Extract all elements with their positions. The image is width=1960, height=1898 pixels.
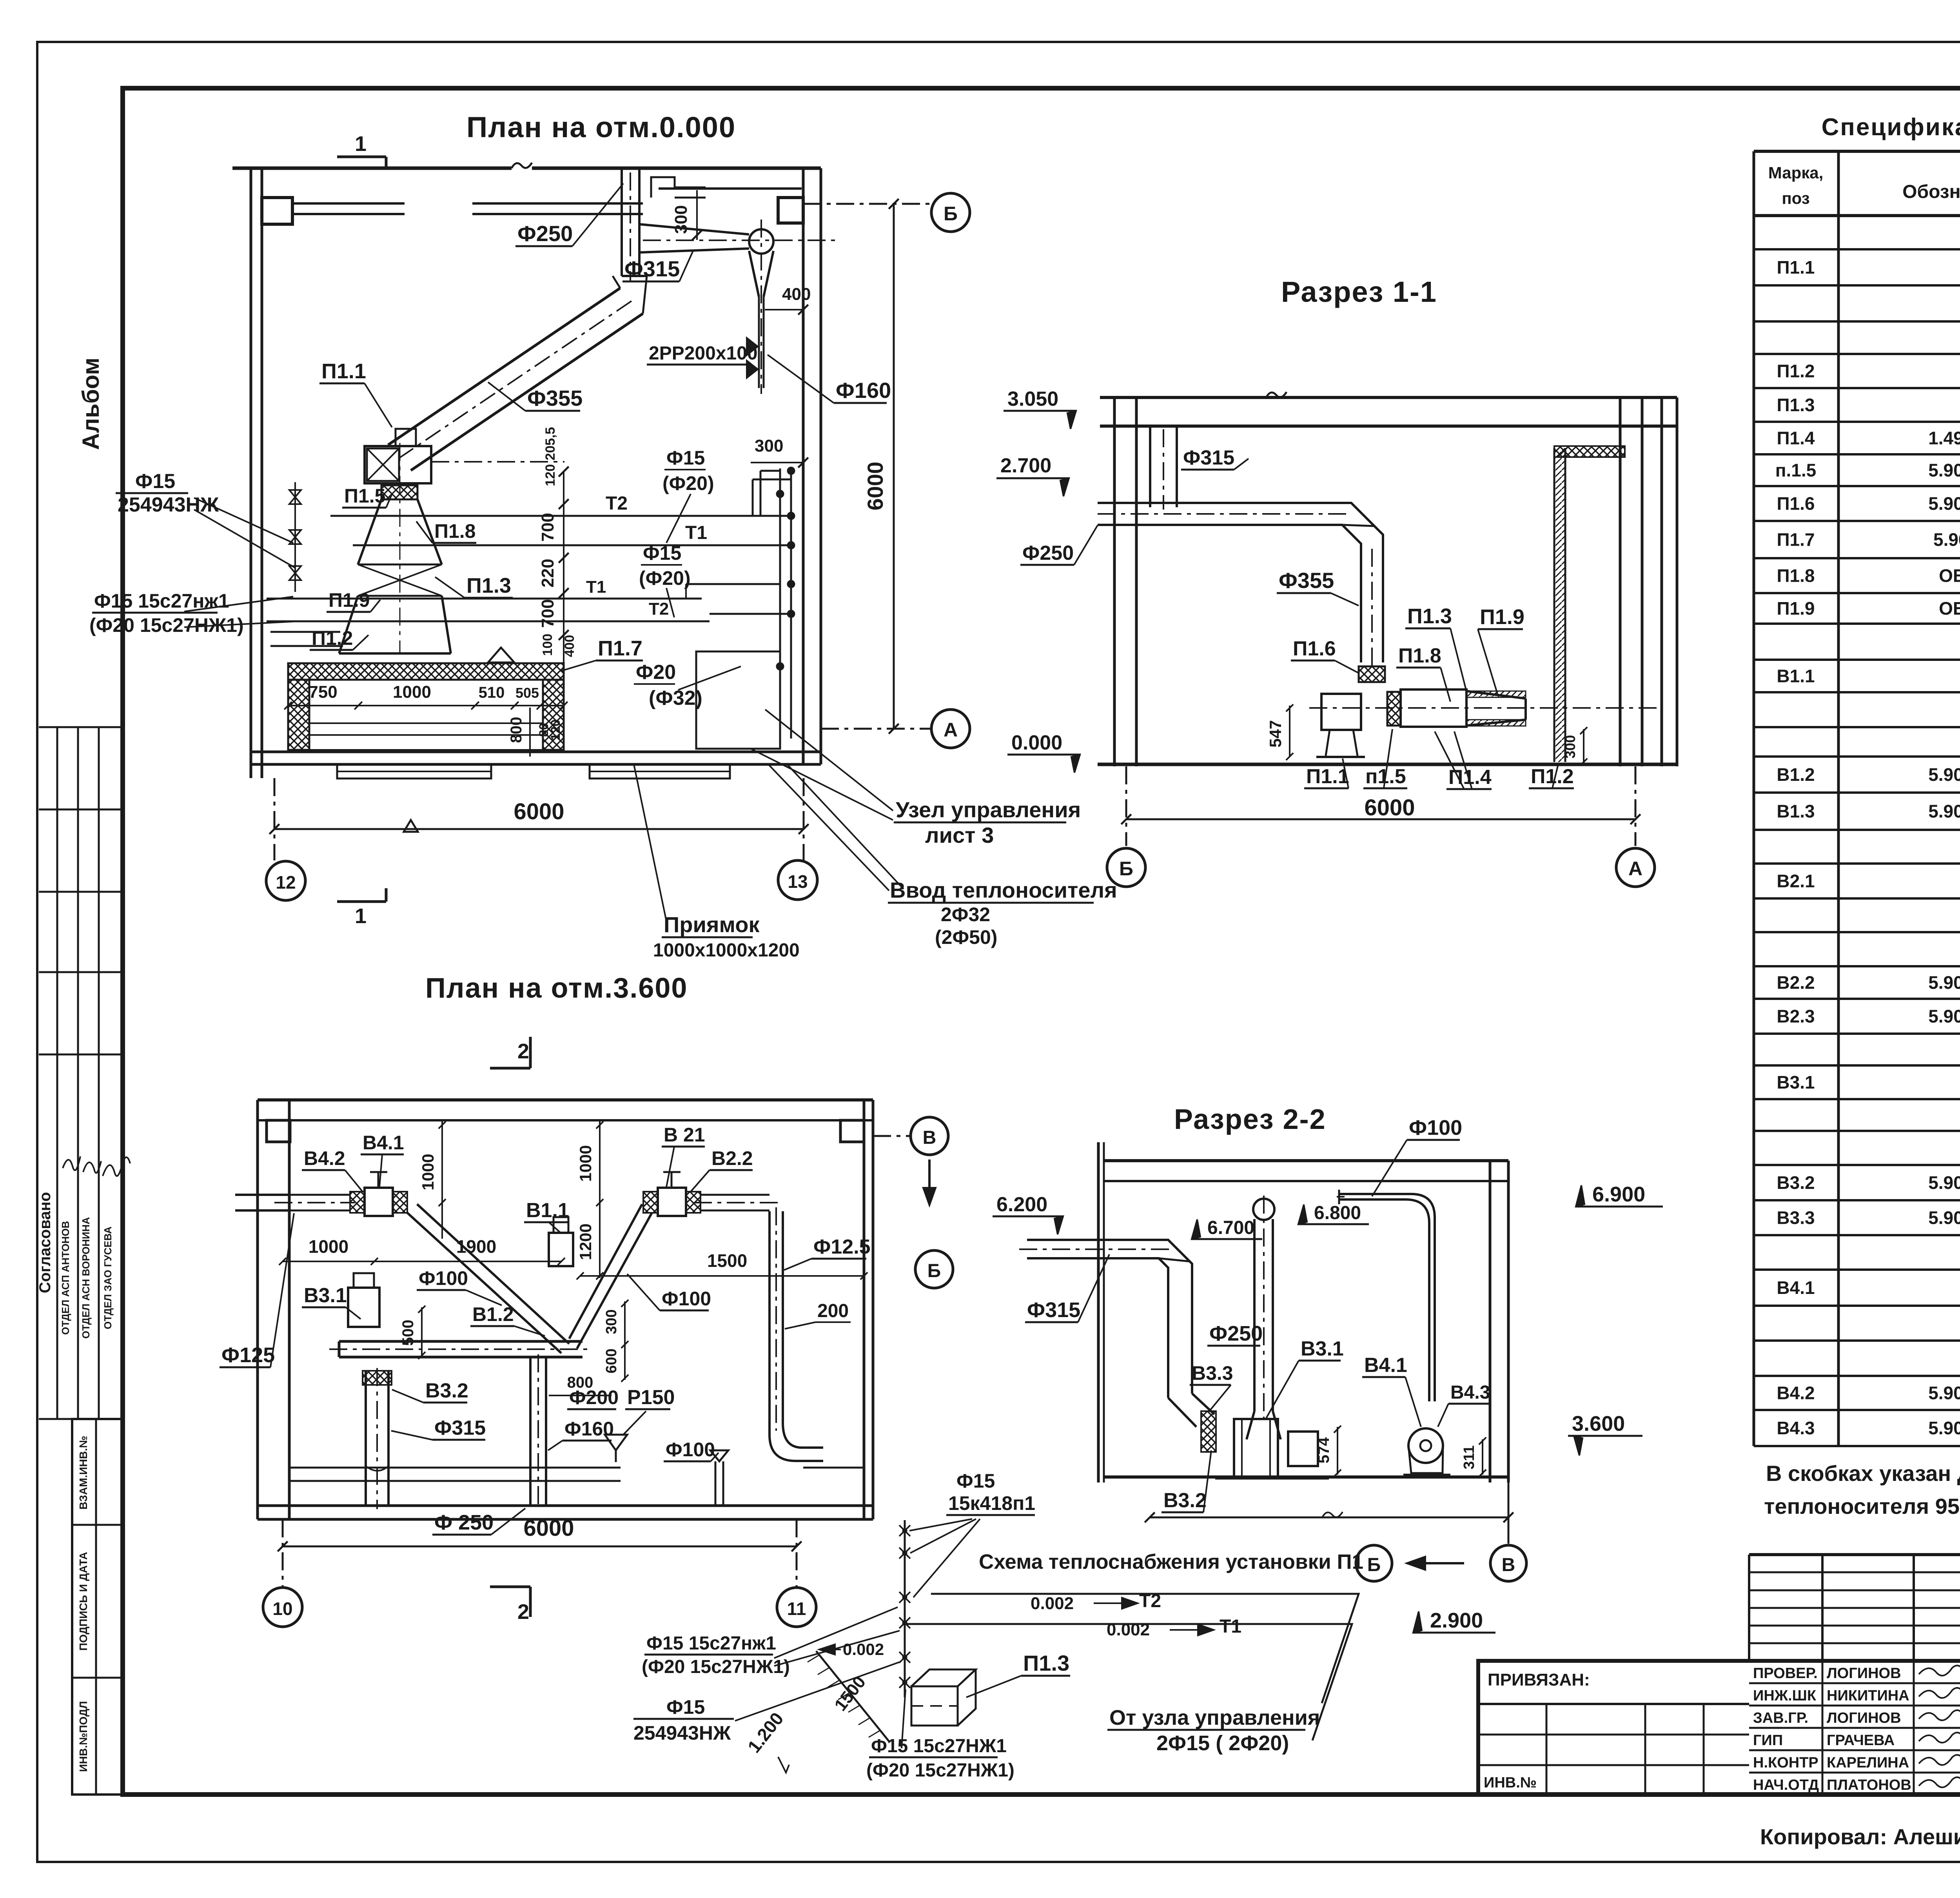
plan0 right column	[778, 198, 803, 223]
svg-text:ИНЖ.ШК: ИНЖ.ШК	[1753, 1688, 1817, 1704]
dim 1900 plan36	[374, 1261, 561, 1262]
line to axis В	[1508, 1482, 1510, 1544]
svg-text:П1.2: П1.2	[1777, 361, 1815, 381]
svg-text:П1.3: П1.3	[1777, 395, 1815, 415]
svg-text:ЛОГИНОВ: ЛОГИНОВ	[1827, 1710, 1901, 1726]
pipe Ф100 top run sec2	[1339, 1194, 1435, 1401]
svg-text:В 21: В 21	[664, 1124, 705, 1146]
svg-text:Ф15: Ф15	[643, 542, 681, 564]
svg-text:П1.9: П1.9	[1777, 598, 1815, 619]
svg-text:В2.1: В2.1	[1777, 871, 1815, 891]
svg-text:574: 574	[1315, 1437, 1332, 1463]
svg-text:Ф15: Ф15	[666, 1696, 705, 1718]
svg-text:254943НЖ: 254943НЖ	[118, 494, 219, 516]
specification table grid	[1753, 151, 1755, 1446]
svg-text:400: 400	[562, 635, 577, 657]
down arrow between В and Б	[928, 1159, 931, 1199]
svg-text:Спецификация систем отопления: Спецификация систем отопления и вентиляц…	[1822, 114, 1960, 141]
svg-text:300: 300	[671, 205, 691, 234]
svg-text:11: 11	[787, 1599, 806, 1619]
svg-text:НАЧ.ОТД: НАЧ.ОТД	[1753, 1777, 1819, 1793]
base line fans sec2	[1215, 1478, 1329, 1480]
svg-text:Ф100: Ф100	[666, 1439, 715, 1461]
svg-text:5.904-38: 5.904-38	[1928, 1383, 1960, 1403]
axis circle 11	[777, 1588, 816, 1627]
svg-text:Ф250: Ф250	[1209, 1322, 1263, 1345]
svg-text:В2.2: В2.2	[1777, 973, 1815, 993]
axis circle В sec2	[1490, 1545, 1526, 1581]
benchmark triangle	[404, 820, 418, 832]
svg-text:2.700: 2.700	[1000, 454, 1051, 477]
svg-text:П1.2: П1.2	[312, 627, 353, 649]
sec1 left wall	[1113, 397, 1116, 766]
heating pipe Т1 upper	[353, 544, 791, 546]
axis circle 12	[266, 861, 305, 900]
dim 1500 plan36	[580, 1275, 864, 1277]
svg-text:П1.7: П1.7	[598, 637, 642, 660]
svg-text:200: 200	[817, 1301, 849, 1321]
svg-text:А: А	[1628, 858, 1642, 880]
svg-text:В4.1: В4.1	[363, 1132, 404, 1154]
svg-text:В3.2: В3.2	[1777, 1172, 1815, 1193]
dim 6000 sec1	[1126, 818, 1635, 820]
svg-text:В: В	[1502, 1555, 1515, 1575]
svg-text:поз: поз	[1782, 189, 1809, 207]
svg-text:5.904-4: 5.904-4	[1933, 530, 1960, 550]
svg-text:Ввод теплоносителя: Ввод теплоносителя	[890, 878, 1117, 902]
flex insert П1.5 hatched	[381, 485, 417, 499]
svg-text:Ф250: Ф250	[1022, 542, 1074, 564]
pit inner outline	[309, 680, 543, 750]
svg-text:(Ф20 15с27НЖ1): (Ф20 15с27НЖ1)	[642, 1657, 790, 1677]
dim 1000 plan36	[283, 1261, 374, 1262]
svg-text:П1.4: П1.4	[1777, 428, 1815, 448]
svg-text:П1.3: П1.3	[466, 574, 511, 597]
cyclone cone	[749, 251, 773, 297]
svg-text:П1.8: П1.8	[1398, 644, 1441, 667]
door marker triangle П1.7	[488, 648, 514, 662]
heating pipe Т2 lower	[267, 621, 710, 622]
svg-text:5.904-38: 5.904-38	[1928, 764, 1960, 785]
svg-text:0.002: 0.002	[1031, 1594, 1074, 1613]
control unit box	[696, 651, 780, 749]
svg-text:2РР200х100: 2РР200х100	[649, 343, 758, 364]
plan36 top-left column	[267, 1120, 290, 1142]
svg-text:700: 700	[538, 599, 557, 628]
sec1 right outer wall	[1661, 397, 1663, 766]
svg-text:Ф355: Ф355	[1279, 568, 1334, 593]
svg-text:500: 500	[399, 1320, 417, 1346]
axis circle Б sec2	[1356, 1545, 1392, 1581]
sec1 floor	[1098, 763, 1677, 766]
svg-text:5.904-38: 5.904-38	[1928, 1418, 1960, 1438]
intake stub П1.2	[270, 631, 340, 633]
svg-text:254943НЖ: 254943НЖ	[633, 1722, 731, 1744]
valves on left pipes	[294, 482, 296, 592]
svg-text:ОВН2: ОВН2	[1939, 598, 1960, 619]
svg-text:220: 220	[538, 559, 557, 587]
approval signatures squiggles	[63, 1156, 80, 1170]
sec1 duct Ф315 drop	[1149, 426, 1151, 507]
svg-text:Согласовано: Согласовано	[36, 1192, 54, 1293]
sec1 hatched ceiling strip right	[1554, 446, 1625, 457]
leaders to узел управления text	[765, 709, 893, 811]
svg-text:600: 600	[603, 1348, 620, 1373]
svg-text:П1.1: П1.1	[1777, 257, 1815, 278]
svg-text:ОВН1: ОВН1	[1939, 566, 1960, 586]
svg-text:лист 3: лист 3	[925, 823, 994, 847]
svg-text:ИНВ.№: ИНВ.№	[1484, 1775, 1537, 1791]
svg-text:(Ф32): (Ф32)	[649, 687, 702, 709]
sec2 duct elbow fold	[1159, 1258, 1190, 1261]
svg-text:Ф250: Ф250	[517, 221, 573, 246]
svg-text:5.904-38: 5.904-38	[1928, 1172, 1960, 1193]
duct Ф250 horizontal plan36	[339, 1340, 583, 1343]
svg-text:400: 400	[782, 285, 811, 304]
dim column rotated texts	[563, 472, 564, 706]
vertical dim 6000 plan0	[893, 204, 895, 729]
wall/damper hatched strip sec1	[1553, 448, 1555, 762]
svg-text:теплоносителя 95÷70°С: теплоносителя 95÷70°С	[1764, 1494, 1960, 1519]
svg-text:ОТДЕЛ АСН ВОРОНИНА: ОТДЕЛ АСН ВОРОНИНА	[80, 1217, 92, 1339]
svg-text:П1.1: П1.1	[1306, 765, 1349, 788]
svg-text:ОТДЕЛ АСП АНТОНОВ: ОТДЕЛ АСП АНТОНОВ	[60, 1221, 71, 1335]
svg-text:311: 311	[1461, 1445, 1477, 1469]
svg-text:13: 13	[788, 871, 808, 892]
svg-text:Ф20: Ф20	[636, 661, 676, 684]
svg-text:ЗАВ.ГР.: ЗАВ.ГР.	[1753, 1710, 1808, 1726]
axis circle А sec1	[1616, 848, 1655, 887]
plan36 bottom wall	[258, 1504, 873, 1507]
svg-text:Т1: Т1	[586, 577, 606, 597]
roof opening step	[651, 177, 706, 198]
transition П1.9 lower taper	[339, 596, 451, 653]
sec2 duct inlet left	[1027, 1240, 1192, 1394]
left margin approval block	[39, 1418, 123, 1420]
plan36 right wall	[863, 1100, 866, 1519]
svg-text:Ф125: Ф125	[221, 1343, 275, 1367]
svg-text:В: В	[923, 1127, 936, 1148]
svg-text:В3.1: В3.1	[304, 1284, 347, 1307]
svg-text:1500: 1500	[831, 1673, 869, 1715]
svg-text:Т2: Т2	[1139, 1591, 1161, 1611]
plan0 left column	[262, 198, 292, 224]
svg-text:Т2: Т2	[649, 599, 669, 619]
transition П1.9 sec1	[1466, 691, 1526, 726]
svg-text:6000: 6000	[523, 1515, 574, 1541]
cyclone pipe Ф160	[758, 297, 760, 388]
left margin grid upper	[39, 726, 123, 728]
svg-text:6000: 6000	[514, 799, 564, 824]
plan0 right wall	[820, 168, 822, 764]
sec1 right inner wall	[1619, 397, 1622, 766]
confuser tower П1.8/П1.9	[358, 499, 442, 564]
svg-text:П1.3: П1.3	[1023, 1651, 1069, 1675]
svg-text:План на отм.3.600: План на отм.3.600	[425, 973, 688, 1004]
fan В3.1 plan36	[348, 1288, 379, 1327]
duct Ф250 vertical plan0	[621, 168, 623, 276]
tower axis to dim column	[431, 461, 564, 463]
svg-text:П1.1: П1.1	[321, 359, 366, 383]
svg-text:Ф15: Ф15	[135, 470, 175, 493]
sec1 horizontal duct	[1098, 503, 1383, 662]
svg-text:Ф100: Ф100	[662, 1288, 711, 1310]
duct Ф355 diagonal plan0	[388, 288, 620, 445]
pipe risers right plan0	[779, 468, 781, 739]
svg-text:В3.1: В3.1	[1301, 1337, 1344, 1360]
title block main frame	[1478, 1661, 1960, 1795]
svg-text:Т1: Т1	[1220, 1616, 1241, 1637]
svg-text:505: 505	[515, 685, 539, 701]
svg-text:В2.2: В2.2	[711, 1147, 753, 1169]
svg-text:6.700: 6.700	[1207, 1218, 1254, 1238]
svg-text:510: 510	[479, 684, 505, 701]
svg-text:5.904-38: 5.904-38	[1928, 801, 1960, 822]
duct branch Ф315 to cyclone	[639, 224, 749, 234]
svg-text:3.050: 3.050	[1007, 388, 1058, 410]
heating pipe Т2 upper	[330, 515, 791, 517]
svg-text:2: 2	[517, 1040, 529, 1063]
axis Б plan0	[803, 203, 932, 205]
svg-text:1900: 1900	[456, 1236, 496, 1257]
svg-text:В3.2: В3.2	[1163, 1489, 1207, 1512]
right duct riser plan36	[769, 1211, 823, 1461]
svg-text:1000х1000х1200: 1000х1000х1200	[653, 940, 800, 961]
svg-text:2Ф32: 2Ф32	[941, 904, 990, 925]
svg-text:ЛОГИНОВ: ЛОГИНОВ	[1827, 1665, 1901, 1682]
svg-text:Ф12.5: Ф12.5	[813, 1236, 871, 1258]
sec1 ceiling slab	[1100, 396, 1677, 399]
duct stub through left wall	[235, 1194, 289, 1196]
svg-text:П1.8: П1.8	[434, 520, 475, 542]
sec2 bottom dim line	[1150, 1517, 1508, 1519]
svg-text:В1.1: В1.1	[1777, 666, 1815, 686]
pipe Т1 scheme	[905, 1624, 1352, 1740]
cyclone circle	[749, 229, 773, 254]
svg-text:Ф100: Ф100	[1409, 1116, 1462, 1140]
svg-text:300: 300	[755, 436, 783, 455]
svg-text:(Ф20): (Ф20)	[639, 567, 691, 589]
svg-text:5.904-38: 5.904-38	[1928, 1006, 1960, 1027]
svg-text:2.900: 2.900	[1430, 1609, 1483, 1632]
duct Ф250 vertical sec2	[1253, 1219, 1256, 1411]
svg-text:Р150: Р150	[627, 1386, 675, 1409]
dim 1000 vert left	[441, 1120, 443, 1239]
cone bottom Ф250 sec2	[1247, 1411, 1281, 1439]
riser with valves	[904, 1520, 906, 1697]
svg-text:Ф15: Ф15	[666, 447, 705, 469]
svg-text:В3.3: В3.3	[1192, 1362, 1233, 1384]
svg-text:5.904-38: 5.904-38	[1928, 460, 1960, 481]
svg-text:В4.3: В4.3	[1450, 1382, 1490, 1403]
svg-text:Ф 250: Ф 250	[434, 1511, 494, 1534]
svg-text:300: 300	[603, 1309, 620, 1334]
svg-text:120: 120	[548, 719, 563, 740]
svg-text:В3.3: В3.3	[1777, 1208, 1815, 1228]
svg-text:КАРЕЛИНА: КАРЕЛИНА	[1827, 1755, 1909, 1771]
svg-text:В1.1: В1.1	[526, 1199, 569, 1222]
plan0 bottom wall	[251, 751, 821, 753]
svg-text:В1.3: В1.3	[1777, 801, 1815, 822]
dim 800 plan36	[549, 1395, 612, 1396]
svg-text:15к418п1: 15к418п1	[948, 1492, 1035, 1514]
fan В4.1 sec2	[1408, 1428, 1443, 1463]
svg-text:1500: 1500	[707, 1250, 747, 1271]
sec1 duct elbow fold	[1342, 525, 1374, 526]
plan0 crane beams	[292, 202, 405, 205]
svg-text:1.494-25: 1.494-25	[1928, 428, 1960, 448]
fan П1.1 sec1	[1321, 694, 1361, 730]
axis circle 13	[778, 860, 817, 900]
svg-text:Копировал: Алешикова: Копировал: Алешикова	[1760, 1824, 1960, 1849]
svg-text:(Ф20 15с27НЖ1): (Ф20 15с27НЖ1)	[866, 1760, 1014, 1781]
svg-text:Т1: Т1	[685, 523, 707, 543]
axis В plan36	[873, 1135, 911, 1137]
svg-text:Узел управления: Узел управления	[896, 797, 1081, 822]
svg-text:П1.2: П1.2	[1531, 765, 1574, 788]
svg-text:П1.6: П1.6	[1777, 494, 1815, 514]
svg-text:1200: 1200	[576, 1223, 595, 1260]
leader lines to valve labels	[194, 498, 293, 543]
svg-text:120 205,5: 120 205,5	[543, 427, 558, 486]
svg-text:6.200: 6.200	[996, 1193, 1047, 1216]
tower cross brace	[358, 564, 442, 596]
svg-text:Ф15 15с27НЖ1: Ф15 15с27НЖ1	[871, 1736, 1007, 1756]
svg-text:В1.2: В1.2	[472, 1303, 514, 1325]
dim 6000 bottom plan0	[274, 828, 804, 830]
dim 574 sec2	[1337, 1427, 1338, 1475]
svg-text:1000: 1000	[393, 682, 431, 702]
axis circle Б sec1	[1107, 848, 1145, 887]
sec2 ceiling slab	[1104, 1159, 1508, 1162]
svg-text:750: 750	[309, 682, 337, 702]
svg-text:ПРИВЯЗАН:: ПРИВЯЗАН:	[1488, 1670, 1590, 1689]
svg-text:5.904-38: 5.904-38	[1928, 973, 1960, 993]
sec2 right wall	[1489, 1161, 1492, 1482]
svg-text:ИНВ.№ПОДЛ: ИНВ.№ПОДЛ	[77, 1701, 89, 1772]
dim 311 sec2	[1482, 1439, 1483, 1475]
svg-text:В4.2: В4.2	[304, 1147, 345, 1169]
fan В3.1 assembly sec2	[1201, 1411, 1216, 1452]
dim 300 600 vert	[624, 1301, 626, 1380]
svg-text:Ф15: Ф15	[956, 1470, 995, 1492]
svg-text:Ф315: Ф315	[1183, 446, 1234, 469]
plan36 top-right column	[840, 1120, 864, 1142]
axis Б plan36	[915, 1250, 953, 1288]
svg-text:П1.8: П1.8	[1777, 566, 1815, 586]
svg-text:10: 10	[272, 1599, 292, 1619]
svg-text:В2.3: В2.3	[1777, 1006, 1815, 1027]
svg-text:Ф315: Ф315	[434, 1417, 486, 1439]
svg-text:В3.1: В3.1	[1777, 1072, 1815, 1092]
svg-text:100: 100	[540, 634, 555, 656]
svg-text:1: 1	[355, 904, 367, 928]
svg-text:Марка,: Марка,	[1768, 163, 1824, 182]
svg-text:Б: Б	[1119, 858, 1133, 880]
svg-text:547: 547	[1266, 720, 1285, 748]
svg-text:5.904-38: 5.904-38	[1928, 494, 1960, 514]
svg-text:П1.9: П1.9	[1480, 605, 1524, 629]
svg-text:Ф100: Ф100	[419, 1267, 468, 1289]
svg-text:1000: 1000	[576, 1145, 595, 1181]
pit dimension line	[288, 705, 564, 706]
svg-text:300: 300	[1562, 735, 1578, 758]
svg-text:2Ф15 ( 2Ф20): 2Ф15 ( 2Ф20)	[1156, 1731, 1289, 1755]
plan36 left wall	[256, 1100, 259, 1519]
axis А plan0	[821, 728, 932, 730]
axis line 12	[274, 778, 276, 860]
duct diagonal В2 to centre	[577, 1213, 652, 1348]
svg-text:6000: 6000	[1364, 795, 1415, 820]
svg-text:(2Ф50): (2Ф50)	[935, 926, 997, 948]
svg-text:3.600: 3.600	[1572, 1412, 1625, 1435]
title block upper grid	[1749, 1554, 1960, 1556]
svg-text:800: 800	[508, 717, 525, 743]
funnel Ф100 small	[710, 1450, 728, 1461]
duct diagonal В4 to centre	[407, 1213, 561, 1353]
left arrow between Б and В	[1413, 1562, 1464, 1564]
heater box П1.3 isometric	[911, 1686, 958, 1726]
svg-text:Разрез 1-1: Разрез 1-1	[1281, 276, 1437, 308]
svg-text:ПЛАТОНОВ: ПЛАТОНОВ	[1827, 1777, 1911, 1793]
fan П1.1 plan0	[365, 446, 431, 483]
pipe Т2 scheme	[931, 1594, 1359, 1703]
svg-text:Ф15 15с27нж1: Ф15 15с27нж1	[94, 590, 229, 612]
svg-text:(Ф20 15с27НЖ1): (Ф20 15с27НЖ1)	[89, 614, 244, 636]
svg-text:Ф160: Ф160	[836, 378, 891, 403]
svg-text:П1.6: П1.6	[1293, 637, 1336, 660]
dim 300 sec1 right	[1583, 729, 1584, 763]
svg-text:В3.2: В3.2	[425, 1379, 468, 1402]
svg-text:700: 700	[538, 513, 557, 541]
sec2 duct elbow bottom	[1168, 1394, 1214, 1427]
svg-text:(Ф20): (Ф20)	[662, 472, 714, 494]
svg-text:6.800: 6.800	[1314, 1203, 1361, 1223]
svg-text:ПОДПИСЬ И ДАТА: ПОДПИСЬ И ДАТА	[77, 1552, 89, 1651]
flexible insert П1.6	[1359, 666, 1385, 682]
left margin inventory strip	[72, 1419, 123, 1795]
svg-text:0.000: 0.000	[1011, 731, 1062, 754]
svg-text:Ф315: Ф315	[624, 256, 680, 281]
plan0 left wall	[250, 168, 252, 778]
axis line 13	[803, 778, 805, 860]
sec2 floor	[1104, 1475, 1508, 1479]
fan В1.1 centre	[549, 1233, 573, 1266]
svg-text:800: 800	[567, 1374, 593, 1391]
svg-text:0.002: 0.002	[1107, 1620, 1150, 1639]
svg-text:Разрез 2-2: Разрез 2-2	[1174, 1104, 1326, 1135]
leaders to ввод теплоносителя	[769, 765, 889, 891]
dim 1000/1200 vert centre	[599, 1120, 601, 1278]
plan36 top wall	[258, 1098, 873, 1101]
duct Ф315 vertical plan36	[365, 1371, 367, 1506]
svg-text:2: 2	[517, 1600, 529, 1624]
svg-text:ОТДЕЛ ЗАО ГУСЕВА: ОТДЕЛ ЗАО ГУСЕВА	[102, 1227, 114, 1329]
duct Ф160 vertical plan36	[529, 1357, 532, 1506]
svg-text:Обозначение: Обозначение	[1902, 181, 1960, 202]
svg-text:Приямок: Приямок	[664, 912, 760, 937]
svg-text:Альбом: Альбом	[78, 357, 104, 450]
svg-text:6000: 6000	[863, 462, 887, 511]
interior platform lines plan36	[289, 1467, 621, 1469]
fan unit В2.1 В2.2	[658, 1188, 686, 1216]
svg-text:В4.1: В4.1	[1364, 1354, 1407, 1377]
plan0 bottom door strips	[337, 764, 491, 778]
plan0 top wall	[232, 167, 512, 170]
svg-text:ГРАЧЕВА: ГРАЧЕВА	[1827, 1732, 1895, 1749]
svg-text:Б: Б	[944, 203, 958, 225]
svg-text:Н.КОНТР: Н.КОНТР	[1753, 1755, 1818, 1771]
